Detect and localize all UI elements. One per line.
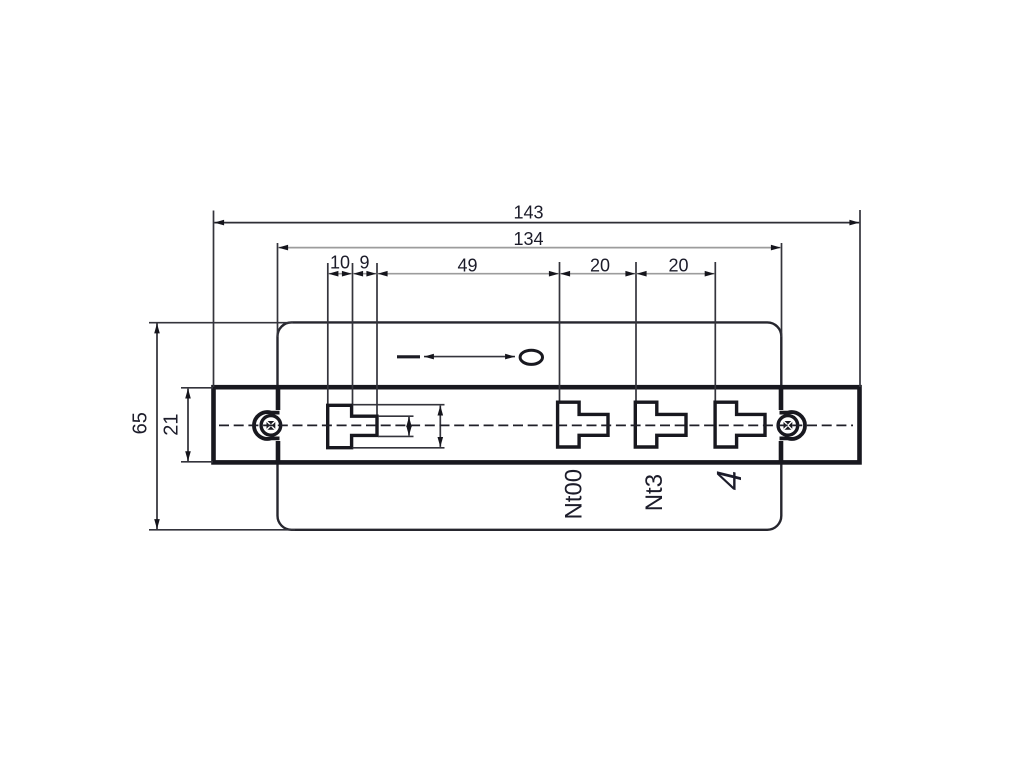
- mounting plate band: [214, 387, 860, 462]
- body left cut edge (thick, with boss notch): [276, 387, 281, 410]
- key profile Nt3: [635, 402, 686, 447]
- dimension 21: [187, 389, 189, 462]
- extension line slot bar right: [352, 263, 354, 405]
- dimension 49: [378, 273, 559, 275]
- dimension 20 second: [637, 273, 715, 275]
- extension line (134 right / body right): [781, 243, 783, 337]
- key slot profile (left, dimensioned): [328, 405, 377, 447]
- svg-text:Nt00: Nt00: [561, 469, 588, 520]
- travel symbol tick: [397, 355, 420, 358]
- svg-text:4: 4: [709, 465, 748, 494]
- stem width dim extension top: [378, 415, 414, 417]
- extension line right (143 / plate right edge): [859, 210, 861, 387]
- svg-text:9: 9: [359, 253, 369, 273]
- screw drive left: [267, 421, 276, 430]
- svg-text:65: 65: [130, 412, 152, 434]
- extension line left (143 / plate left edge): [213, 211, 215, 388]
- extension line 21 top: [181, 387, 213, 389]
- extension line 65 bottom: [149, 529, 295, 531]
- body right cut edge (thick, with boss notch): [779, 387, 784, 410]
- extension line key 4: [714, 262, 716, 402]
- svg-text:143: 143: [513, 203, 543, 223]
- body rounded rectangle: [278, 322, 782, 529]
- extension line slot bar left: [327, 263, 329, 405]
- stem width dim extension bottom: [378, 435, 414, 437]
- extension line 21 bottom: [181, 461, 213, 463]
- svg-text:20: 20: [590, 256, 610, 276]
- bar height dim extension bottom: [353, 447, 445, 449]
- dimension 134: [278, 247, 781, 249]
- dimension 143: [214, 222, 859, 224]
- dimension 9: [353, 273, 376, 275]
- svg-text:10: 10: [330, 253, 350, 273]
- stem width dim arrows: [408, 417, 410, 436]
- screw head right: [778, 416, 798, 436]
- key profile Nt00: [558, 402, 608, 447]
- extension line 65 top: [149, 322, 293, 324]
- travel symbol O: [520, 350, 542, 364]
- extension line key Nt00: [559, 262, 561, 402]
- dimension 20 first: [560, 273, 635, 275]
- screw boss right: [780, 412, 806, 439]
- svg-text:21: 21: [161, 413, 183, 435]
- svg-text:49: 49: [457, 256, 477, 276]
- screw head left: [261, 416, 281, 436]
- travel symbol arrow: [424, 356, 515, 358]
- bar height dim extension top: [353, 404, 445, 406]
- dimension 65: [156, 324, 158, 530]
- extension line slot stem end: [376, 263, 378, 416]
- extension line key Nt3: [635, 262, 637, 402]
- svg-text:134: 134: [513, 229, 543, 249]
- key profile 4: [715, 402, 765, 447]
- bar height dim arrows: [439, 406, 441, 447]
- screw drive right: [784, 421, 793, 430]
- svg-text:Nt3: Nt3: [641, 474, 668, 511]
- centerline: [219, 424, 853, 426]
- dimension 10: [329, 273, 352, 275]
- extension line (134 left / body left): [277, 243, 279, 337]
- screw boss left: [254, 412, 280, 439]
- svg-text:20: 20: [668, 256, 688, 276]
